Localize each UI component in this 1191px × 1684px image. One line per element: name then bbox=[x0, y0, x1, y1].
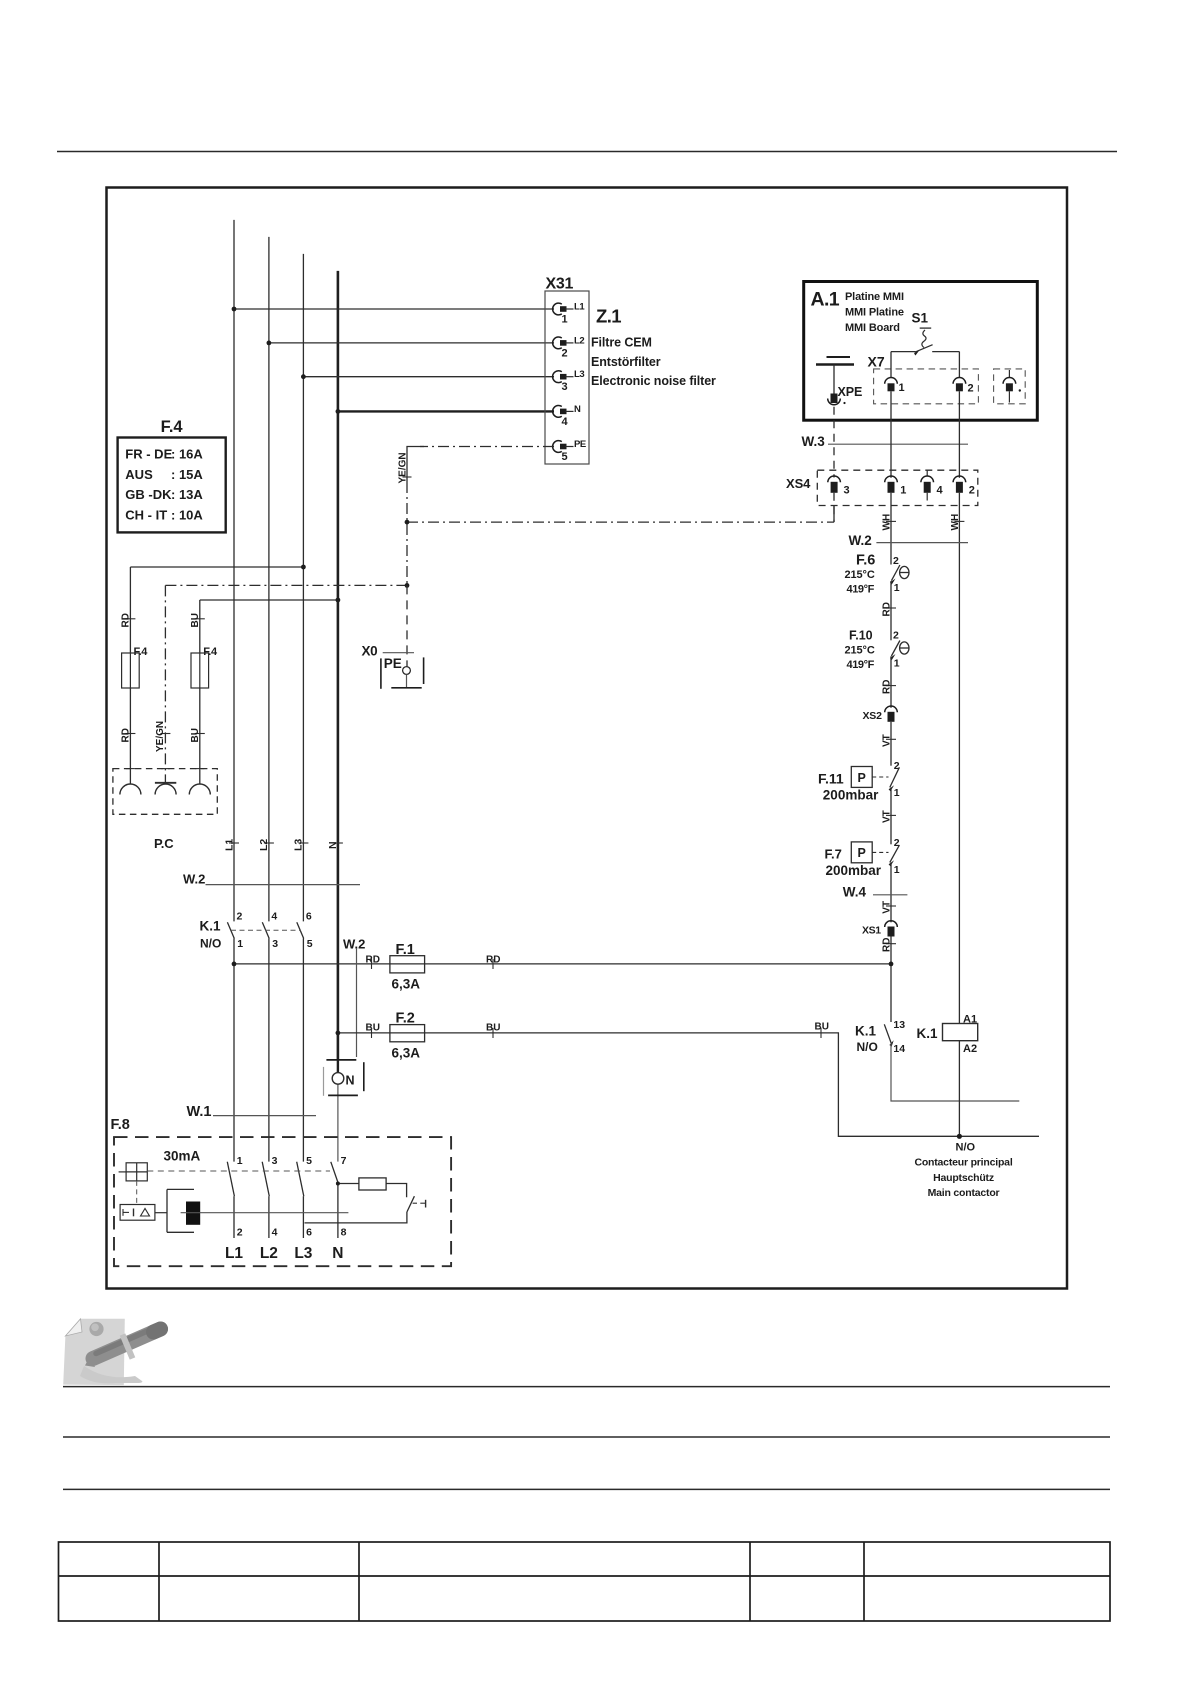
K.1 aux contact 13/14 bbox=[884, 1019, 905, 1055]
svg-text:L2: L2 bbox=[260, 1245, 278, 1262]
F.8 pole 3/4 (L2) bbox=[262, 1155, 277, 1239]
wire K.1 contact to coil row bbox=[891, 1043, 1019, 1101]
svg-text:2: 2 bbox=[893, 555, 899, 567]
junction N feed bbox=[336, 409, 341, 414]
svg-text:N: N bbox=[332, 1245, 343, 1262]
PE dash-dot vertical to junction bbox=[406, 482, 408, 585]
XS4 pin 4 (spare) bbox=[921, 470, 944, 500]
svg-text:2: 2 bbox=[237, 1227, 243, 1239]
label VT below XS2 bbox=[886, 738, 896, 740]
svg-text:WH: WH bbox=[950, 514, 961, 531]
fuse F.4 right body bbox=[191, 653, 209, 688]
svg-text:RD: RD bbox=[121, 728, 132, 742]
wire BU branch from N bbox=[200, 600, 338, 784]
wire L2 feed to X31 pin2 bbox=[269, 342, 554, 344]
wire F.11 to F.7 bbox=[890, 788, 892, 845]
svg-text:1: 1 bbox=[562, 314, 568, 326]
junction RD feed on K.1 branch bbox=[889, 962, 894, 967]
svg-text:2: 2 bbox=[969, 485, 975, 497]
label VT below F.11 bbox=[886, 814, 896, 816]
svg-text:L1: L1 bbox=[223, 839, 235, 851]
junction test branch on N pole bbox=[336, 1182, 340, 1186]
svg-text:MMI Board: MMI Board bbox=[845, 322, 900, 334]
label BU upper bbox=[195, 618, 205, 620]
F.8 pole 1/2 (L1) bbox=[227, 1155, 242, 1239]
svg-text:200mbar: 200mbar bbox=[823, 787, 879, 802]
X7 pin 1 bbox=[885, 352, 905, 394]
svg-text:BU: BU bbox=[815, 1022, 829, 1033]
svg-text:F.4: F.4 bbox=[134, 646, 149, 658]
terminal N bbox=[324, 1060, 364, 1096]
junction L2 feed bbox=[267, 341, 272, 346]
svg-text:1: 1 bbox=[894, 658, 900, 670]
svg-text:N/O: N/O bbox=[956, 1142, 976, 1154]
wire L2 vertical bbox=[268, 237, 270, 1238]
svg-text:1: 1 bbox=[894, 864, 900, 876]
svg-text:5: 5 bbox=[307, 938, 313, 950]
svg-text:3: 3 bbox=[272, 938, 278, 950]
svg-text:4: 4 bbox=[937, 485, 944, 497]
svg-text:Platine MMI: Platine MMI bbox=[845, 291, 904, 303]
wire L3 vertical bbox=[302, 254, 304, 1238]
wire BU control feed bbox=[338, 1033, 1039, 1136]
svg-text:XS4: XS4 bbox=[786, 476, 811, 491]
X31 pin 2 (L2) bbox=[553, 335, 585, 359]
svg-text:RD: RD bbox=[881, 602, 892, 616]
wire XS4 pin1 down bbox=[890, 493, 892, 565]
wire XPE dashed drop bbox=[833, 407, 835, 478]
label WH right bbox=[954, 520, 964, 522]
svg-text:4: 4 bbox=[271, 911, 277, 923]
svg-text:RD: RD bbox=[366, 955, 380, 966]
svg-text:3: 3 bbox=[844, 485, 850, 497]
label L2 rotated bbox=[264, 842, 274, 844]
K.1 pole L3 bbox=[297, 911, 313, 951]
svg-text:8: 8 bbox=[341, 1227, 347, 1239]
svg-text:F.11: F.11 bbox=[818, 770, 844, 786]
wire L1 vertical bbox=[233, 220, 235, 1238]
label WH left bbox=[886, 520, 896, 522]
svg-text:2: 2 bbox=[968, 383, 974, 395]
svg-text:Electronic noise filter: Electronic noise filter bbox=[591, 374, 716, 388]
X31 pin 5 (PE) bbox=[553, 439, 586, 463]
svg-text:4: 4 bbox=[562, 416, 569, 428]
svg-text:L3: L3 bbox=[293, 839, 305, 851]
svg-text:W.4: W.4 bbox=[843, 884, 867, 899]
svg-text:F.10: F.10 bbox=[849, 628, 873, 642]
svg-text:4: 4 bbox=[272, 1227, 278, 1239]
footer rule 3 bbox=[63, 1488, 1110, 1490]
wire N vertical (thick) bbox=[337, 271, 340, 1060]
pressure switch F.7 bbox=[825, 837, 900, 878]
label RD below F.10 bbox=[886, 685, 896, 687]
svg-text:X7: X7 bbox=[868, 354, 885, 370]
svg-text:W.3: W.3 bbox=[802, 434, 826, 449]
F.8 current transformer core bbox=[167, 1189, 200, 1232]
svg-text:X31: X31 bbox=[546, 276, 574, 293]
YE/GN label on PE drop wire bbox=[403, 476, 412, 478]
P.C socket contact N bbox=[189, 784, 210, 794]
wire XS2 to F.11 bbox=[890, 722, 892, 766]
label RD upper bbox=[125, 618, 135, 620]
PE dashed drop to X0 terminal bbox=[406, 585, 408, 666]
svg-text:Z.1: Z.1 bbox=[596, 306, 621, 327]
schematic border frame bbox=[107, 188, 1068, 1289]
svg-text:VT: VT bbox=[881, 734, 892, 747]
junction BU on N bbox=[336, 1031, 341, 1036]
svg-text:WH: WH bbox=[881, 514, 892, 531]
svg-text:1: 1 bbox=[899, 382, 905, 394]
connector XS2 bbox=[863, 706, 898, 722]
junction RD on L3 bbox=[301, 565, 306, 570]
F.8 pole 7/8 (N) bbox=[331, 1155, 347, 1239]
wire XS4 pin3 dashed below bbox=[833, 493, 835, 522]
label RD below F.6 bbox=[886, 607, 896, 609]
svg-text:VT: VT bbox=[881, 901, 892, 914]
fuse rating table F.4 box bbox=[118, 438, 226, 533]
note icon bbox=[63, 1319, 160, 1385]
svg-text:419°F: 419°F bbox=[847, 659, 875, 671]
svg-text:215°C: 215°C bbox=[845, 644, 875, 656]
plug P.C dashed box bbox=[113, 769, 217, 815]
label N rotated bbox=[333, 842, 343, 844]
junction BU on N bbox=[336, 598, 341, 603]
F.8 pole 5/6 (L3) bbox=[297, 1155, 312, 1239]
svg-text:S1: S1 bbox=[912, 311, 929, 326]
svg-text:L1: L1 bbox=[574, 302, 585, 313]
svg-text:VT: VT bbox=[881, 810, 892, 823]
K.1 pole L2 bbox=[262, 911, 278, 951]
svg-text:BU: BU bbox=[190, 728, 201, 742]
svg-text:5: 5 bbox=[562, 451, 568, 463]
connector XS1 bbox=[862, 921, 897, 937]
svg-text:6,3A: 6,3A bbox=[392, 1046, 421, 1061]
svg-text:: 15A: : 15A bbox=[171, 467, 203, 482]
svg-text:K.1: K.1 bbox=[200, 919, 222, 934]
wire XS4 pin2 down bbox=[958, 493, 960, 1024]
connector XPE pin (inverted) bbox=[828, 394, 846, 405]
svg-text:P.C: P.C bbox=[154, 836, 174, 851]
svg-text:FR - DE: FR - DE bbox=[125, 447, 172, 462]
connector XS4 dashed box bbox=[817, 470, 978, 505]
F.8 sensing conductor bbox=[181, 1212, 349, 1214]
svg-text:F.8: F.8 bbox=[111, 1117, 130, 1133]
svg-text:X0: X0 bbox=[362, 644, 378, 659]
wire F.6 to F.10 bbox=[890, 581, 892, 640]
junction PE at x407 y522 bbox=[405, 520, 410, 525]
svg-text:2: 2 bbox=[893, 630, 899, 642]
F.8 test return wire to L3 bbox=[305, 1212, 407, 1223]
svg-text:3: 3 bbox=[562, 381, 568, 393]
wire F.7 to XS1 bbox=[890, 863, 892, 923]
svg-text:PE: PE bbox=[384, 656, 402, 671]
svg-text:7: 7 bbox=[341, 1155, 347, 1167]
svg-text:YE/GN: YE/GN bbox=[155, 721, 166, 752]
svg-text:1: 1 bbox=[237, 1155, 243, 1167]
switch S1 contact bbox=[891, 345, 959, 353]
wire X7 pin2 to XS4 pin2 bbox=[958, 391, 960, 478]
PE dash-dot vertical into P.C bbox=[164, 585, 166, 782]
thermal cutout F.6 bbox=[845, 553, 910, 596]
fuse F.4 left body bbox=[122, 653, 140, 688]
svg-text:GB -DK: GB -DK bbox=[125, 487, 172, 502]
connector X31 body bbox=[545, 291, 589, 464]
X31 pin 1 (L1) bbox=[553, 302, 586, 326]
wire ground to XPE bbox=[833, 365, 835, 394]
svg-text:215°C: 215°C bbox=[845, 569, 875, 581]
svg-text:MMI Platine: MMI Platine bbox=[845, 306, 904, 318]
junction RD on L1 bbox=[232, 962, 237, 967]
RCD F.8 dashed enclosure bbox=[114, 1137, 451, 1266]
MMI board A.1 enclosure bbox=[804, 282, 1038, 421]
svg-text:XS1: XS1 bbox=[862, 924, 881, 936]
svg-text:RD: RD bbox=[121, 613, 132, 627]
svg-text:6: 6 bbox=[306, 1227, 312, 1239]
svg-text:30mA: 30mA bbox=[164, 1149, 201, 1164]
F.8 dashed link test box to relay bbox=[136, 1181, 138, 1205]
P.C socket contact PE with bar bbox=[155, 784, 176, 794]
wire L3 feed to X31 pin3 bbox=[303, 376, 554, 378]
svg-text:L3: L3 bbox=[574, 369, 584, 380]
wire F.10 to XS2 bbox=[890, 656, 892, 708]
svg-text:P: P bbox=[858, 771, 866, 785]
svg-text:2: 2 bbox=[894, 760, 900, 772]
junction N/O node bbox=[957, 1134, 962, 1139]
svg-text:AUS: AUS bbox=[125, 467, 153, 482]
ground symbol on A.1 bbox=[827, 356, 851, 358]
svg-text:F.6: F.6 bbox=[856, 553, 875, 569]
svg-text:W.2: W.2 bbox=[849, 533, 872, 548]
terminal X0 PE group bbox=[381, 653, 424, 689]
wire RD branch from L3 bbox=[130, 567, 303, 784]
contactor coil K.1 bbox=[943, 1014, 978, 1056]
switch S1 actuator bbox=[920, 327, 932, 329]
X7 pin 2 bbox=[953, 352, 974, 395]
svg-text:Filtre CEM: Filtre CEM bbox=[591, 336, 652, 350]
svg-text:Entstörfilter: Entstörfilter bbox=[591, 355, 661, 369]
connector X7 dashed box bbox=[874, 369, 979, 404]
svg-text:Contacteur principal: Contacteur principal bbox=[914, 1157, 1012, 1169]
svg-text:K.1: K.1 bbox=[917, 1026, 939, 1041]
wire XS1 to K.1 contact bbox=[890, 937, 892, 1023]
svg-text:1: 1 bbox=[900, 485, 906, 497]
F.8 test box (crossed square) bbox=[119, 1163, 148, 1181]
svg-text:1: 1 bbox=[237, 938, 243, 950]
svg-text:: 16A: : 16A bbox=[171, 447, 203, 462]
svg-text:N: N bbox=[346, 1074, 355, 1088]
svg-text:A2: A2 bbox=[963, 1043, 977, 1055]
XS4 pin 3 bbox=[828, 476, 850, 497]
svg-text:5: 5 bbox=[306, 1155, 312, 1167]
label L1 rotated bbox=[229, 842, 239, 844]
wire N inside F.8 below pole bbox=[337, 1183, 339, 1238]
svg-text:XPE: XPE bbox=[838, 385, 863, 399]
svg-text:XS2: XS2 bbox=[863, 710, 883, 722]
label VT above XS1 bbox=[886, 905, 896, 907]
XS4 pin 1 bbox=[885, 476, 907, 497]
svg-text:: 13A: : 13A bbox=[171, 487, 203, 502]
svg-text:N/O: N/O bbox=[857, 1040, 878, 1054]
svg-text:P: P bbox=[858, 846, 866, 860]
wire L1 feed to X31 pin1 bbox=[234, 308, 554, 310]
label BU lower bbox=[195, 733, 205, 735]
page header rule bbox=[57, 151, 1117, 153]
svg-text:F.4: F.4 bbox=[203, 646, 218, 658]
F.8 test resistor branch wire bbox=[338, 1184, 407, 1198]
PE riser to XS4 pin3 bbox=[833, 505, 835, 522]
svg-text:200mbar: 200mbar bbox=[826, 863, 882, 878]
svg-text:2: 2 bbox=[237, 911, 243, 923]
F.8 trip relay box bbox=[120, 1205, 155, 1221]
F.8 test resistor bbox=[359, 1178, 386, 1190]
svg-text:: 10A: : 10A bbox=[171, 507, 203, 522]
svg-text:3: 3 bbox=[272, 1155, 278, 1167]
label L3 rotated bbox=[298, 842, 308, 844]
svg-text:6: 6 bbox=[306, 911, 312, 923]
svg-text:CH - IT: CH - IT bbox=[125, 507, 167, 522]
svg-text:RD: RD bbox=[881, 680, 892, 694]
X7 spare pin dashed box bbox=[994, 369, 1026, 404]
footer rule 1 bbox=[63, 1386, 1110, 1388]
svg-text:BU: BU bbox=[190, 613, 201, 627]
wire X7 pin1 to XS4 pin1 bbox=[890, 391, 892, 478]
svg-text:F.7: F.7 bbox=[825, 847, 842, 862]
X31 pin 4 (N) bbox=[553, 404, 581, 428]
wire N feed to X31 pin4 (thick) bbox=[338, 410, 554, 412]
P.C socket contact L bbox=[120, 784, 141, 795]
svg-text:N: N bbox=[327, 841, 339, 849]
F.8 mechanical linkage dashed bbox=[147, 1170, 330, 1172]
svg-text:13: 13 bbox=[893, 1019, 905, 1031]
pressure switch F.11 bbox=[818, 760, 900, 803]
P.C entry ticks bbox=[126, 768, 204, 770]
svg-text:RD: RD bbox=[881, 938, 892, 952]
svg-text:14: 14 bbox=[893, 1043, 905, 1055]
label RD below XS1 bbox=[886, 943, 896, 945]
svg-text:BU: BU bbox=[366, 1023, 380, 1034]
svg-text:A.1: A.1 bbox=[811, 289, 840, 311]
svg-text:F.4: F.4 bbox=[161, 418, 184, 436]
PE dash-dot wire from X31 pin5 bbox=[420, 446, 554, 448]
PE dash-dot horizontal to P.C bbox=[165, 584, 407, 586]
S1 pivot arrow bbox=[914, 350, 920, 356]
label RD lower bbox=[125, 733, 135, 735]
wire N below terminal bbox=[337, 1084, 339, 1161]
X31 pin 3 (L3) bbox=[553, 369, 585, 393]
revision table bbox=[59, 1542, 1111, 1621]
svg-text:419°F: 419°F bbox=[847, 583, 875, 595]
XS4 pin 2 bbox=[953, 476, 975, 497]
svg-text:L1: L1 bbox=[225, 1245, 243, 1262]
footer rule 2 bbox=[63, 1436, 1110, 1438]
svg-text:6,3A: 6,3A bbox=[392, 977, 421, 992]
svg-text:K.1: K.1 bbox=[855, 1024, 877, 1039]
X7 spare pin bbox=[1003, 370, 1021, 403]
junction PE at x407 y585 bbox=[405, 583, 410, 588]
svg-text:1: 1 bbox=[894, 787, 900, 799]
svg-text:PE: PE bbox=[574, 439, 586, 450]
svg-text:2: 2 bbox=[562, 347, 568, 359]
svg-text:Hauptschütz: Hauptschütz bbox=[933, 1172, 994, 1184]
svg-text:W.2: W.2 bbox=[183, 872, 205, 887]
PE dash-dot horizontal to XS4 pin3 column bbox=[407, 521, 834, 523]
junction L3 feed bbox=[301, 374, 306, 379]
svg-text:N: N bbox=[574, 404, 581, 415]
wire RD control feed bbox=[234, 963, 390, 965]
svg-text:1: 1 bbox=[894, 582, 900, 594]
svg-text:Main contactor: Main contactor bbox=[928, 1187, 1000, 1199]
label YE/GN lower bbox=[160, 733, 170, 735]
svg-text:L2: L2 bbox=[258, 839, 270, 851]
svg-text:L2: L2 bbox=[574, 335, 584, 346]
F.8 relay connection bbox=[155, 1212, 167, 1214]
svg-text:W.2: W.2 bbox=[343, 937, 365, 952]
svg-text:W.1: W.1 bbox=[187, 1104, 212, 1120]
K.1 pole L1 bbox=[227, 911, 243, 951]
wire coil to N/O node bbox=[958, 1041, 960, 1137]
F.8 test button bbox=[407, 1196, 426, 1212]
svg-text:N/O: N/O bbox=[200, 937, 221, 951]
junction L1 feed bbox=[232, 307, 237, 312]
svg-text:YE/GN: YE/GN bbox=[398, 452, 409, 483]
K.1 mechanical linkage dashed bbox=[231, 929, 301, 931]
svg-text:L3: L3 bbox=[294, 1245, 312, 1262]
thermal cutout F.10 bbox=[845, 628, 910, 671]
